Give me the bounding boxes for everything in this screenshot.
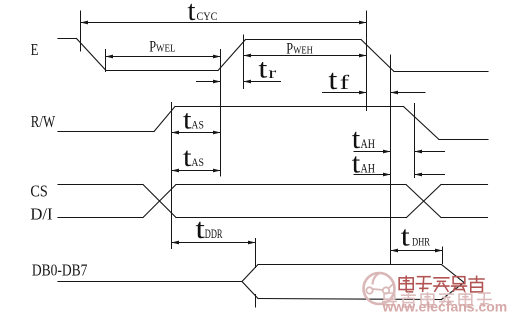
node tick E rise low bbox=[220, 49, 222, 177]
dimension tAH second right arrow bbox=[415, 174, 446, 176]
wire CS/DI crossover right falling bbox=[406, 185, 441, 218]
svg-text:www.elecfans.com: www.elecfans.com bbox=[382, 299, 507, 315]
wire E falling edge left bbox=[77, 39, 107, 71]
dimension tr right arrow bbox=[244, 81, 282, 83]
wire D/I left bbox=[58, 217, 143, 219]
node tick tCYC left bbox=[80, 11, 82, 52]
wire CS/DI crossover left falling bbox=[143, 185, 176, 218]
watermark text row 1 bbox=[399, 276, 485, 292]
dimension tf right arrow bbox=[391, 92, 426, 94]
wire R/W rising edge bbox=[154, 107, 175, 132]
wire R/W low right bbox=[439, 139, 488, 141]
wire R/W low left bbox=[58, 131, 154, 133]
wire E falling edge right bbox=[361, 40, 394, 72]
dimension tAS second bbox=[172, 170, 221, 172]
wire DB bus open top bbox=[242, 265, 258, 282]
wire DB bus close top bbox=[442, 265, 465, 283]
wire DB bus open bottom bbox=[242, 282, 258, 299]
dimension PWEH bbox=[244, 55, 367, 57]
watermark text row 2 bbox=[382, 292, 492, 307]
node tick tAS tDDR left bbox=[171, 102, 173, 249]
dimension tAH second left arrow bbox=[354, 174, 391, 176]
node tick PWEL left bbox=[105, 49, 107, 72]
wire R/W high bbox=[175, 106, 404, 108]
wire CS right bbox=[441, 184, 488, 186]
wire DB0-DB7 lead line bbox=[58, 281, 242, 283]
wire CS/DI valid top bbox=[176, 184, 406, 186]
dimension tCYC bbox=[81, 22, 367, 24]
wire E high left bbox=[58, 38, 77, 40]
node tick E rise high bbox=[243, 35, 245, 90]
node tick tDDR right lower bbox=[255, 294, 257, 308]
node tick tCYC right bbox=[366, 11, 368, 112]
node tick tAH right bbox=[414, 103, 416, 178]
wire E low right bbox=[394, 71, 488, 73]
node tick tf right long bbox=[390, 55, 392, 265]
wire R/W falling edge bbox=[404, 107, 440, 140]
wire DB bus close bottom bbox=[442, 283, 465, 300]
dimension tAS first bbox=[172, 132, 221, 134]
dimension tDDR bbox=[172, 242, 256, 244]
wire D/I right bbox=[441, 217, 488, 219]
wire E low bbox=[106, 70, 218, 72]
dimension tr left arrow bbox=[196, 81, 221, 83]
wire DB bus top bbox=[258, 264, 442, 266]
node tick tDDR right upper bbox=[255, 238, 257, 268]
watermark logo circle bbox=[364, 273, 395, 305]
wire CS left bbox=[58, 184, 143, 186]
dimension tDHR bbox=[391, 250, 443, 252]
wire E high mid bbox=[246, 39, 362, 41]
wire CS/DI crossover left rising bbox=[143, 185, 176, 218]
dimension PWEL bbox=[106, 56, 221, 58]
dimension tAH first left arrow bbox=[354, 151, 391, 153]
wire CS/DI valid bottom bbox=[176, 217, 407, 219]
dimension tAH first right arrow bbox=[415, 151, 446, 153]
dimension tf left arrow bbox=[322, 92, 367, 94]
node tick tDHR right bbox=[442, 247, 444, 265]
wire CS/DI crossover right rising bbox=[407, 185, 442, 218]
wire E rising edge bbox=[218, 40, 246, 71]
wire DB bus bottom bbox=[258, 299, 442, 300]
